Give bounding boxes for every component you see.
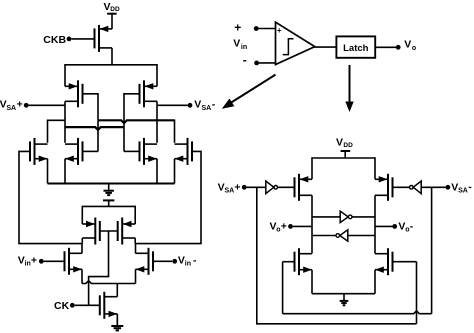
svg-text:in: in (241, 44, 247, 51)
svg-text:Latch: Latch (343, 43, 369, 54)
svg-text:CKB: CKB (43, 34, 66, 46)
svg-text:SA: SA (6, 105, 16, 112)
svg-text:in: in (185, 261, 191, 268)
svg-text:DD: DD (110, 6, 120, 13)
svg-text:SA: SA (458, 187, 468, 194)
svg-text:V: V (404, 38, 411, 50)
svg-text:+: + (234, 181, 240, 193)
svg-text:-: - (410, 220, 414, 232)
svg-text:SA: SA (202, 105, 212, 112)
svg-text:V: V (336, 136, 343, 148)
svg-text:+: + (234, 21, 241, 35)
svg-text:in: in (25, 261, 31, 268)
svg-text:SA: SA (225, 187, 235, 194)
svg-text:-: - (243, 53, 247, 67)
svg-text:+: + (31, 255, 37, 267)
svg-text:V: V (233, 38, 240, 50)
svg-text:o: o (412, 45, 416, 52)
svg-text:V: V (194, 99, 201, 111)
svg-text:+: + (277, 26, 282, 35)
svg-text:+: + (17, 99, 23, 111)
svg-text:+: + (281, 220, 287, 232)
svg-text:-: - (193, 254, 197, 266)
svg-text:CK: CK (54, 300, 70, 312)
svg-text:-: - (468, 181, 472, 193)
svg-text:-: - (212, 99, 216, 111)
svg-text:-: - (278, 58, 281, 67)
svg-text:DD: DD (343, 142, 353, 149)
